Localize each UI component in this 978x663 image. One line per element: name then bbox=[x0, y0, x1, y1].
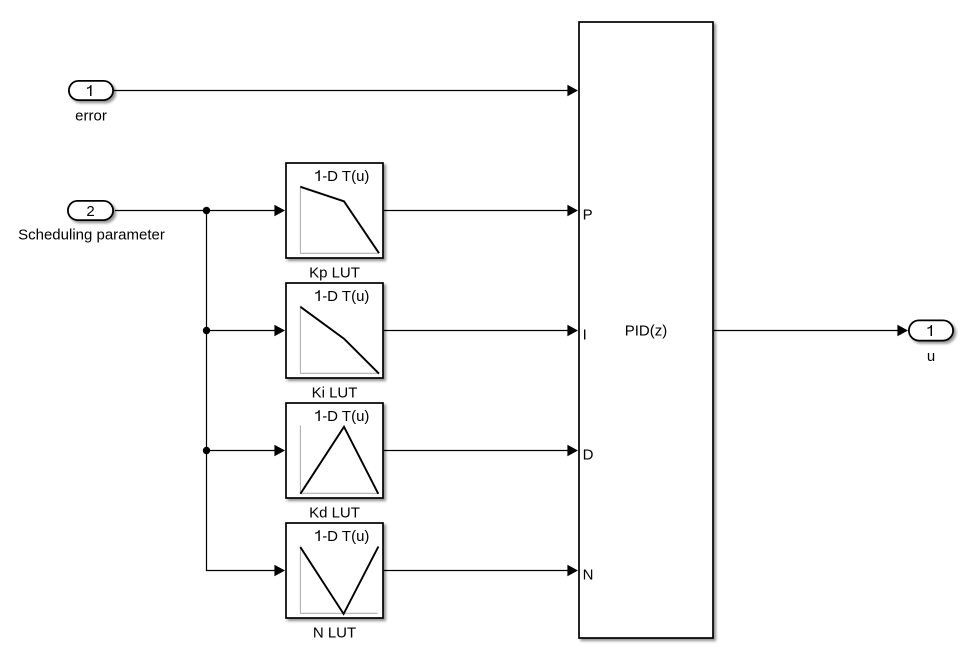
wire Ki LUT to PID I bbox=[384, 325, 578, 336]
svg-text:PID(z): PID(z) bbox=[625, 323, 668, 340]
wire branch to Ki LUT bbox=[207, 325, 286, 336]
junction dot row2 bbox=[203, 327, 210, 334]
svg-text:2: 2 bbox=[86, 203, 94, 220]
lookup table block Kd LUT bbox=[286, 403, 383, 498]
svg-text:I: I bbox=[583, 326, 587, 343]
svg-text:Scheduling parameter: Scheduling parameter bbox=[18, 227, 165, 244]
svg-text:N LUT: N LUT bbox=[313, 624, 356, 641]
wire Kp LUT to PID P bbox=[384, 205, 578, 216]
wire inport2 to Kp LUT bbox=[115, 205, 285, 216]
svg-text:P: P bbox=[583, 206, 593, 223]
svg-text:-D T(u): -D T(u) bbox=[322, 288, 369, 305]
outport 1 (u) bbox=[909, 320, 953, 340]
wire branch to N LUT bbox=[207, 565, 286, 576]
wire vertical branch bbox=[206, 211, 208, 571]
junction dot row1 bbox=[203, 207, 210, 214]
svg-text:-D T(u): -D T(u) bbox=[322, 168, 369, 185]
svg-text:Ki LUT: Ki LUT bbox=[312, 384, 358, 401]
svg-text:Kp LUT: Kp LUT bbox=[309, 264, 360, 281]
inport 1 (error) bbox=[69, 81, 113, 100]
junction dot row3 bbox=[203, 447, 210, 454]
lookup table block N LUT bbox=[286, 523, 383, 618]
svg-text:error: error bbox=[75, 108, 107, 125]
svg-text:u: u bbox=[927, 348, 935, 365]
wire N LUT to PID N bbox=[384, 565, 578, 576]
svg-text:Kd LUT: Kd LUT bbox=[309, 504, 360, 521]
wire error to PID bbox=[114, 85, 578, 96]
wire branch to Kd LUT bbox=[207, 445, 286, 456]
svg-text:-D T(u): -D T(u) bbox=[322, 528, 369, 545]
wire PID to outport u bbox=[714, 325, 908, 336]
wire Kd LUT to PID D bbox=[384, 445, 578, 456]
svg-text:-D T(u): -D T(u) bbox=[322, 408, 369, 425]
inport 2 (Scheduling parameter) bbox=[68, 201, 113, 220]
lookup table block Ki LUT bbox=[286, 283, 383, 378]
lookup table block Kp LUT bbox=[286, 163, 383, 258]
svg-text:N: N bbox=[583, 566, 594, 583]
PID controller block PID(z) bbox=[579, 22, 713, 638]
svg-text:D: D bbox=[583, 446, 594, 463]
